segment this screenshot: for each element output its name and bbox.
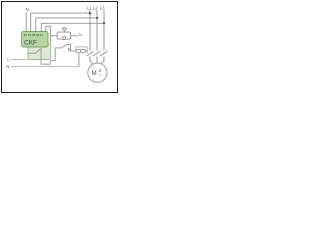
wire stub to CKF terminal 2 bbox=[30, 13, 32, 32]
svg-text:25: 25 bbox=[24, 33, 28, 37]
svg-text:L3: L3 bbox=[100, 6, 105, 11]
svg-text:M: M bbox=[92, 70, 97, 77]
relay CKF body bbox=[22, 32, 49, 48]
wire N stub to CKF bbox=[25, 12, 27, 32]
motor M1 body bbox=[88, 63, 107, 82]
contactor coil loop 2 bbox=[80, 49, 85, 52]
wire CKF terminal 5 to indicator bbox=[46, 26, 51, 44]
wire L2 vertical bbox=[96, 10, 98, 51]
wire N rail bbox=[11, 66, 79, 68]
contactor pole 3 slash bbox=[100, 51, 107, 56]
wire L3 vertical bbox=[103, 10, 105, 51]
junction dot L2 bbox=[96, 17, 98, 19]
svg-text:N: N bbox=[79, 32, 82, 37]
relay contact compartment bbox=[28, 44, 51, 60]
indicator body bbox=[57, 32, 71, 39]
coil return wire to N rail bbox=[78, 53, 80, 67]
mechanical linkage bbox=[76, 47, 87, 50]
wire pole 3 to motor bbox=[100, 56, 104, 64]
coil right lead bbox=[86, 50, 88, 52]
svg-text:L2: L2 bbox=[93, 6, 98, 11]
svg-text:~: ~ bbox=[99, 73, 102, 78]
contact common lead bbox=[29, 52, 36, 54]
border frame bbox=[2, 2, 118, 93]
wire L3 tap bbox=[41, 22, 104, 24]
contactor pole 2 slash bbox=[93, 51, 100, 56]
wire contact to coil bbox=[41, 44, 76, 64]
wire pole 2 to motor bbox=[96, 56, 98, 63]
wire L1 vertical bbox=[89, 10, 91, 51]
wire stub to CKF terminal 4 bbox=[40, 23, 42, 32]
wire L rail bbox=[11, 59, 29, 61]
svg-text:31: 31 bbox=[40, 33, 44, 37]
wire stub to CKF terminal 3 bbox=[35, 18, 37, 32]
actuator bar bbox=[86, 47, 88, 54]
indicator top bulb bbox=[63, 28, 67, 30]
wire pole 1 to motor bbox=[90, 56, 94, 64]
svg-text:L1: L1 bbox=[87, 6, 92, 11]
svg-text:K: K bbox=[68, 47, 71, 52]
svg-text:N: N bbox=[26, 7, 29, 12]
svg-text:CKF: CKF bbox=[24, 39, 37, 46]
junction dot L1 bbox=[89, 12, 91, 14]
wire L1 tap bbox=[31, 12, 90, 14]
indicator left lead bbox=[50, 35, 57, 37]
indicator bulb stem bbox=[63, 30, 65, 32]
contact moving blade bbox=[36, 49, 41, 54]
contactor coil loop 1 bbox=[76, 49, 81, 52]
junction dot L3 bbox=[103, 22, 105, 24]
wire L2 tap bbox=[36, 17, 97, 19]
indicator inner circle bbox=[63, 37, 66, 40]
svg-text:N: N bbox=[6, 64, 9, 69]
contactor pole 1 slash bbox=[87, 51, 93, 56]
indicator right lead bbox=[71, 35, 78, 37]
